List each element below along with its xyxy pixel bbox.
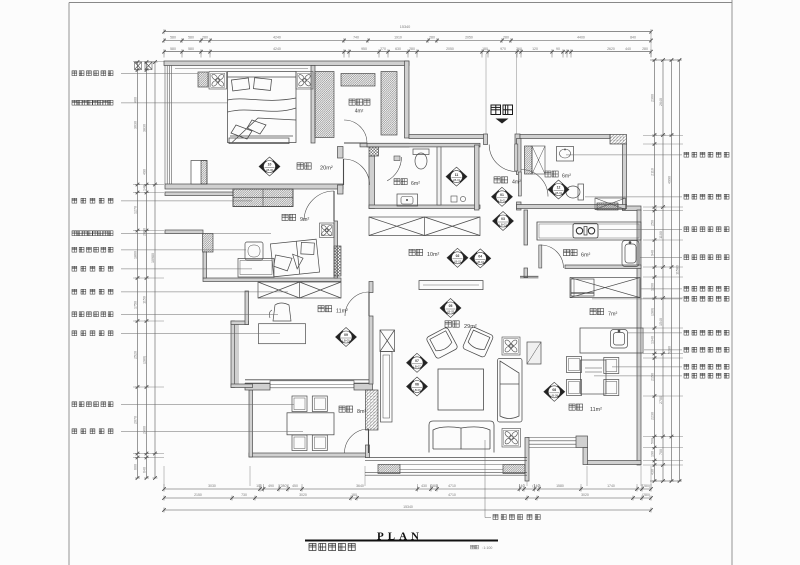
svg-text:2110: 2110 <box>651 168 655 176</box>
svg-text:7m²: 7m² <box>608 312 617 318</box>
label: vegetable sink 2 <box>628 332 682 334</box>
dim left col2 <box>144 60 149 480</box>
svg-text:LB-08: LB-08 <box>551 393 559 397</box>
svg-text:630: 630 <box>395 47 401 51</box>
bed second bedroom <box>270 239 319 277</box>
tea chair 3 <box>292 435 307 451</box>
svg-text:2360: 2360 <box>651 94 655 102</box>
window hatch: bay right <box>503 465 525 474</box>
bed master <box>228 72 297 144</box>
wardrobe hatch bedroom2 <box>233 189 293 207</box>
window: dining right bottom <box>527 438 576 448</box>
label: dining chair <box>612 366 682 368</box>
label: double sofa <box>484 440 486 518</box>
hatch column master bedroom <box>201 161 207 185</box>
tea chair 2 <box>312 396 327 412</box>
room label tea room <box>339 406 353 412</box>
svg-text:10980: 10980 <box>151 253 155 263</box>
wall: study/tea divider <box>245 379 373 381</box>
wall: second bedroom right <box>334 221 338 278</box>
svg-text:2520: 2520 <box>134 351 138 359</box>
svg-text:02: 02 <box>456 254 460 258</box>
dim right bottom tick line <box>650 480 681 482</box>
dim bottom extensions <box>164 466 651 489</box>
svg-text:280: 280 <box>503 36 509 40</box>
svg-text:840: 840 <box>630 36 636 40</box>
svg-text:3830: 3830 <box>143 124 147 132</box>
dim left col3 <box>153 60 158 480</box>
door arc: second bedroom <box>304 191 334 221</box>
tea chair 1 <box>292 396 307 412</box>
marker 12 public bath <box>548 180 569 199</box>
marker 10 master <box>259 157 280 176</box>
svg-text:(140): (140) <box>532 484 540 488</box>
svg-text:280: 280 <box>202 36 208 40</box>
marker 07 living <box>407 353 428 372</box>
wall: dining bottom outer <box>587 461 641 465</box>
tv stand living <box>419 281 483 290</box>
label: toilet <box>585 196 682 198</box>
svg-text:2150: 2150 <box>194 493 202 497</box>
label: wardrobe <box>72 198 113 203</box>
label: bookcase <box>72 289 113 294</box>
side table living top <box>502 337 520 355</box>
border top <box>69 2 732 4</box>
wall: study bay top <box>231 321 249 325</box>
marker 04 corridor <box>470 249 491 268</box>
svg-text:6m²: 6m² <box>581 253 590 259</box>
svg-text:140: 140 <box>143 185 147 191</box>
svg-text:09: 09 <box>344 333 348 337</box>
svg-text:2640: 2640 <box>659 98 663 106</box>
svg-text:970: 970 <box>500 47 506 51</box>
svg-text:3640: 3640 <box>356 484 364 488</box>
dim right extensions <box>643 136 683 466</box>
svg-text:07: 07 <box>415 359 419 363</box>
svg-text:700: 700 <box>659 449 663 455</box>
bar island west kitchen <box>580 328 643 353</box>
svg-text:4m²: 4m² <box>512 180 521 186</box>
fridge west kitchen <box>571 279 594 296</box>
svg-text:1100: 1100 <box>659 231 663 239</box>
wall: study top <box>203 278 341 282</box>
wall: second bedroom left lower <box>203 252 207 278</box>
label: desk <box>72 266 113 271</box>
wall: kitchen left upper <box>524 210 528 245</box>
svg-text:2700: 2700 <box>659 396 663 404</box>
wall hatch: corridor corner checker <box>369 147 379 156</box>
dim right col4 <box>677 58 682 483</box>
svg-text:1340: 1340 <box>651 336 655 344</box>
sofa living <box>429 421 494 453</box>
curtain line master top <box>175 68 308 70</box>
extension line entrance right <box>516 54 518 134</box>
svg-text:2050: 2050 <box>465 36 473 40</box>
svg-text:10: 10 <box>268 163 272 167</box>
room label public bath <box>545 171 558 177</box>
stove kitchen <box>573 224 598 239</box>
svg-text:190: 190 <box>651 451 655 457</box>
wall: master right stub upper <box>338 147 344 159</box>
window hatch: bay left <box>378 465 400 474</box>
svg-text:1740: 1740 <box>607 484 615 488</box>
svg-text:LB-02: LB-02 <box>555 191 563 195</box>
entrance label <box>491 105 513 115</box>
wall: kitchen/dining right outer <box>637 210 641 465</box>
svg-text:LB-05: LB-05 <box>447 310 455 314</box>
wall: master/second bedroom <box>165 184 343 189</box>
door jamb master bath <box>394 156 400 161</box>
svg-text:04: 04 <box>478 255 482 259</box>
door arc: study <box>345 292 369 316</box>
wall: study bay bottom <box>231 384 253 388</box>
label: single chair 2 <box>72 312 113 317</box>
bookcase study <box>258 282 341 298</box>
desk study <box>259 324 306 344</box>
svg-text:4710: 4710 <box>448 493 456 497</box>
wardrobe border bedroom2 <box>233 189 293 207</box>
label: bedside cabinet <box>72 71 113 76</box>
window hatch: kitchen top <box>597 203 618 210</box>
chair study <box>273 303 291 321</box>
nightstand bedroom2 <box>245 242 263 260</box>
title scale <box>471 545 479 549</box>
door arc: master bedroom <box>344 159 370 185</box>
extension line entrance left <box>485 54 487 134</box>
entrance arrow <box>496 119 509 124</box>
label: single chair 3 <box>72 402 113 407</box>
svg-text:1200: 1200 <box>651 283 655 291</box>
svg-text:11580: 11580 <box>676 265 680 275</box>
svg-text:4240: 4240 <box>273 47 281 51</box>
svg-text:11m²: 11m² <box>590 407 602 413</box>
svg-text:11: 11 <box>455 173 459 177</box>
wall: top outer (master+cloak) <box>164 61 409 66</box>
svg-text:490: 490 <box>143 169 147 175</box>
svg-text:90: 90 <box>556 47 560 51</box>
room label study <box>318 306 332 312</box>
svg-text:LB-09: LB-09 <box>342 339 350 343</box>
svg-text:950: 950 <box>361 47 367 51</box>
svg-text:1150: 1150 <box>143 296 147 304</box>
svg-text:4m²: 4m² <box>355 109 364 115</box>
svg-text:580: 580 <box>170 47 176 51</box>
svg-text:2150: 2150 <box>651 373 655 381</box>
label: bar counter <box>644 349 682 351</box>
tv wall column <box>380 330 395 352</box>
marker 02 corridor <box>447 248 468 267</box>
svg-text:500: 500 <box>651 438 655 444</box>
wall: corner block right window <box>576 436 588 448</box>
marker 11 master bath <box>446 167 467 186</box>
sink cabinet master bath <box>397 194 418 206</box>
tea table <box>287 413 334 435</box>
svg-text:(280): (280) <box>279 484 287 488</box>
fan symbol bedroom2 <box>320 223 335 238</box>
wardrobe hatch cloak top <box>341 74 375 87</box>
svg-text:LB-03: LB-03 <box>499 223 507 227</box>
sink kitchen <box>622 241 639 267</box>
label: gas stove <box>599 228 682 230</box>
svg-text:1540: 1540 <box>659 318 663 326</box>
dim right col1 <box>652 58 657 483</box>
svg-text:4710: 4710 <box>448 484 456 488</box>
svg-text:11m²: 11m² <box>336 308 348 314</box>
svg-text:06: 06 <box>415 383 419 387</box>
dining chair 3 <box>567 380 582 396</box>
svg-text:LB-06: LB-06 <box>413 388 421 392</box>
border left <box>68 3 70 565</box>
svg-text:250: 250 <box>651 220 655 226</box>
svg-text:(280): (280) <box>642 484 650 488</box>
shower drain master bath <box>451 196 457 202</box>
wall: public bath left lower <box>517 202 522 210</box>
wall hatch: tea/living divider <box>366 390 379 430</box>
dining table <box>581 360 607 394</box>
dim bottom row2 <box>162 496 653 501</box>
svg-text:1580: 1580 <box>556 484 564 488</box>
wall: public bath right outer <box>623 144 627 210</box>
door jamb entrance left <box>484 134 488 145</box>
wall: master bath top <box>367 143 480 147</box>
svg-text:9m²: 9m² <box>300 217 309 223</box>
door arc: cloakroom <box>344 120 367 143</box>
toilet public bath <box>566 184 584 200</box>
wall: entrance left outer <box>409 135 487 139</box>
dim top extension lines <box>164 52 651 58</box>
wardrobe hatch cloak right <box>381 72 397 136</box>
svg-text:580: 580 <box>188 47 194 51</box>
room label master bath <box>394 179 407 185</box>
wall: public bath bottom / kitchen top <box>517 205 627 209</box>
label: desk 2 <box>72 331 113 336</box>
toilet master bath <box>413 149 429 169</box>
svg-text:490: 490 <box>268 484 274 488</box>
svg-text:640: 640 <box>143 467 147 473</box>
wall: study bay left outer <box>231 321 235 388</box>
label: 1.2m single bed <box>72 231 113 236</box>
svg-text:20m²: 20m² <box>320 166 333 172</box>
dining chair 2 <box>604 358 619 374</box>
svg-text:03: 03 <box>501 217 505 221</box>
door jamb entrance right <box>515 134 520 145</box>
wall: master bath bottom <box>369 205 480 209</box>
svg-text:(280): (280) <box>651 308 655 316</box>
svg-text:360: 360 <box>516 47 522 51</box>
room label master bedroom <box>297 163 311 169</box>
wall hatch: top right corner <box>610 135 627 145</box>
border right <box>731 0 733 565</box>
wall hatch: checker column bedroom2 <box>334 246 341 276</box>
svg-text:4990: 4990 <box>668 176 672 184</box>
room label cloakroom <box>349 99 370 105</box>
dining chair 1 <box>567 357 582 373</box>
svg-text:6m²: 6m² <box>562 174 571 180</box>
ceiling lamp / nightstand right <box>296 72 313 90</box>
svg-text:15340: 15340 <box>400 25 411 29</box>
armchair living left <box>426 327 458 359</box>
wall: public bath left upper <box>517 139 522 175</box>
wall: entrance right outer <box>520 135 610 139</box>
svg-text:280: 280 <box>409 47 415 51</box>
cabinet public bath <box>532 146 545 174</box>
svg-text:01: 01 <box>500 193 504 197</box>
door arc: public bath <box>521 170 548 197</box>
tea chair 4 <box>312 435 327 451</box>
coffee table living <box>438 369 484 410</box>
svg-text:3030: 3030 <box>208 484 216 488</box>
dim top row2 <box>162 38 653 43</box>
wall: master bath left <box>369 156 375 209</box>
svg-text:580: 580 <box>188 36 194 40</box>
svg-text:(280): (280) <box>143 356 147 364</box>
svg-text:4400: 4400 <box>577 36 585 40</box>
side table living bottom <box>502 429 521 448</box>
room label living <box>445 321 459 327</box>
room label second bedroom <box>282 214 296 220</box>
room label dining <box>569 404 583 410</box>
dim right col3 <box>669 58 674 483</box>
svg-text:2860: 2860 <box>143 228 147 236</box>
dim bottom row3 <box>162 508 653 513</box>
svg-text:: 1:100: : 1:100 <box>481 546 492 550</box>
svg-text:940: 940 <box>651 250 655 256</box>
wall hatch public bath left <box>525 146 533 174</box>
room label kitchen <box>564 250 578 256</box>
label: wash basin <box>566 154 682 156</box>
svg-text:LB-02: LB-02 <box>454 259 462 263</box>
svg-text:120: 120 <box>532 47 538 51</box>
wall: dining bottom step <box>583 448 588 465</box>
washbasin public bath <box>557 147 574 162</box>
column: living/dining divider <box>527 342 541 364</box>
marker 09 study <box>336 328 357 347</box>
wall: kitchen bottom <box>565 265 641 269</box>
sink island <box>611 330 628 349</box>
ceiling lamp / nightstand left <box>209 72 227 90</box>
svg-text:10m²: 10m² <box>427 252 439 258</box>
room label west kitchen <box>590 309 604 315</box>
svg-text:600: 600 <box>134 464 138 470</box>
svg-text:12: 12 <box>557 186 561 190</box>
svg-text:180: 180 <box>351 493 357 497</box>
chaise sofa living <box>498 359 523 423</box>
svg-text:280: 280 <box>642 47 648 51</box>
svg-text:270: 270 <box>380 47 386 51</box>
svg-text:6m²: 6m² <box>411 181 420 187</box>
marker 01 hall <box>492 187 513 206</box>
tv cabinet strip <box>381 352 393 423</box>
wall: kitchen left lower stub <box>524 268 528 278</box>
wall: hall/master-bath divider <box>475 145 480 210</box>
label: appliance cabinet <box>641 288 682 290</box>
svg-text:2400: 2400 <box>143 426 147 434</box>
wall: master/cloakroom divider <box>311 66 315 144</box>
window: study-tea wall <box>270 381 354 388</box>
dim bottom row1 <box>162 487 653 492</box>
label: fridge <box>592 298 682 300</box>
svg-text:100: 100 <box>256 484 262 488</box>
label: 2.0m double bed <box>72 100 113 105</box>
svg-text:1270: 1270 <box>134 206 138 214</box>
svg-text:3020: 3020 <box>581 493 589 497</box>
dim left col1 <box>135 60 140 480</box>
svg-text:1860: 1860 <box>134 251 138 259</box>
svg-text:1910: 1910 <box>394 36 402 40</box>
svg-text:4240: 4240 <box>273 36 281 40</box>
label: single chair <box>72 247 113 252</box>
extension line top right corner <box>650 32 652 57</box>
nightstand hatch <box>198 72 208 87</box>
wall: second bedroom top inner <box>165 192 233 196</box>
column notch master bedroom <box>191 161 207 185</box>
door arc: tea room <box>345 429 369 453</box>
wall: study right lower <box>369 316 373 384</box>
dining chair 4 <box>604 380 619 396</box>
svg-text:180: 180 <box>482 47 488 51</box>
marker 06 living <box>407 377 428 396</box>
wall: living bottom left stub <box>366 445 370 458</box>
marker 08 dining <box>544 382 565 401</box>
svg-text:LB-01: LB-01 <box>498 198 506 202</box>
svg-text:LB-07: LB-07 <box>413 364 421 368</box>
marker 05 living <box>440 299 461 318</box>
svg-text:15340: 15340 <box>403 505 413 509</box>
storage corridor <box>369 217 480 236</box>
label: tea table <box>72 429 113 434</box>
dim top row1 <box>162 29 653 34</box>
wall: second bedroom left jog <box>165 230 203 234</box>
wall: study left upper <box>245 291 249 325</box>
wall: tea room bottom outer <box>249 453 369 457</box>
svg-text:3020: 3020 <box>299 493 307 497</box>
wardrobe hatch cloak left <box>315 72 334 138</box>
wall: master bath partition <box>437 147 441 205</box>
door arc: entrance <box>489 145 516 172</box>
door leaf kitchen <box>539 245 542 268</box>
wall: corridor bottom stub at west kitchen <box>520 275 538 277</box>
svg-text:440: 440 <box>625 47 631 51</box>
door arc: master bath <box>387 157 401 181</box>
svg-text:8m²: 8m² <box>357 409 366 415</box>
svg-text:2620: 2620 <box>607 47 615 51</box>
door leaf entrance <box>515 144 518 171</box>
svg-text:580: 580 <box>170 36 176 40</box>
wall: tea top right stub <box>354 384 373 391</box>
bay window band: living room bottom <box>365 458 527 476</box>
dim right col2 <box>661 58 666 483</box>
marker 03 hall <box>493 212 514 231</box>
window: study bay left wall <box>236 324 238 384</box>
svg-text:LB-04: LB-04 <box>477 260 485 264</box>
washer public bath <box>595 198 626 210</box>
wall: study right upper stub <box>369 282 373 293</box>
svg-text:2050: 2050 <box>446 47 454 51</box>
room label hall <box>494 177 508 183</box>
door leaf public bath <box>518 172 521 196</box>
svg-text:LB-01: LB-01 <box>453 178 461 182</box>
title chinese <box>309 544 355 551</box>
svg-text:05: 05 <box>449 304 453 308</box>
svg-text:(280): (280) <box>642 493 650 497</box>
dim left top cross boxes <box>135 62 142 70</box>
wall: tea top left stub <box>245 384 270 391</box>
svg-text:450: 450 <box>292 484 298 488</box>
wall: cloak bottom stub <box>360 143 409 147</box>
svg-text:730: 730 <box>241 493 247 497</box>
armchair living right <box>462 326 494 358</box>
svg-text:430: 430 <box>421 484 427 488</box>
